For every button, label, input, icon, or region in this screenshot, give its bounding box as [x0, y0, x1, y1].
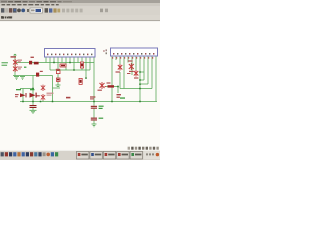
- canvas top-left tab text: [1, 17, 11, 19]
- transistor Q2 left lower: [13, 66, 18, 73]
- wire cap chain x94 below bus: [93, 102, 95, 106]
- wire right ladder rungs: [140, 79, 144, 81]
- label U2 left pin text: [103, 49, 107, 54]
- wire y88 stub right: [53, 87, 61, 89]
- resistor R7 vertical x80.5 lower: [79, 78, 82, 84]
- label Q1: [18, 60, 22, 63]
- wire left rail L2 y75.5: [13, 75, 53, 77]
- transistor Q8 right cluster b: [129, 63, 134, 70]
- label red above bus x90: [90, 96, 95, 99]
- diode D1 on bus A: [29, 61, 32, 65]
- power arrow above Q1: [14, 54, 17, 58]
- transistor Q7 right cluster a: [118, 64, 123, 71]
- resistor R5 chain lower: [56, 78, 60, 81]
- resistor R6 vertical x82: [80, 62, 83, 68]
- capacitor C2 on x94: [91, 106, 97, 109]
- capacitor C3 polarized on x94: [91, 118, 97, 121]
- label D4: [107, 82, 111, 83]
- label mid red x66: [66, 97, 70, 99]
- ground left pair 1: [14, 76, 19, 78]
- wire left transistor stem: [14, 58, 16, 76]
- toolbar icons: [1, 8, 4, 12]
- wire cap branch below bus x33: [32, 102, 34, 106]
- wire x112 vertical: [111, 56, 113, 102]
- label green small near L2: [24, 67, 26, 68]
- label C2 green: [99, 106, 104, 109]
- transistor Q6 mid cluster: [100, 82, 107, 89]
- toolbar2 left control: [1, 16, 4, 19]
- IC U2 pin numbers: [112, 57, 153, 58]
- resistor R3 on busB x60-66: [60, 64, 66, 67]
- ground mid under resistor chain: [56, 84, 61, 86]
- title bar: [0, 0, 160, 3]
- taskbar: [0, 150, 160, 160]
- label Q9: [134, 77, 138, 78]
- transistor Q4 mid-left upper: [41, 85, 45, 91]
- menu bar: [0, 3, 160, 6]
- toolbar faint icons: [62, 9, 83, 13]
- tray: [144, 151, 160, 159]
- LED D3 bottom-left: [30, 93, 37, 98]
- wire mid transistor link y86.5: [106, 86, 118, 88]
- label Q5 right: [47, 93, 54, 96]
- cap marks right of mid cluster: [117, 94, 121, 98]
- label D1 value dark: [34, 62, 39, 65]
- status tray icon row above taskbar: [128, 147, 159, 150]
- diode D2 bottom-left: [20, 93, 27, 97]
- diode D4 mid solid: [108, 85, 115, 87]
- taskbar window buttons: [77, 151, 89, 159]
- toolbar combobox: [30, 8, 43, 13]
- label Q5 left: [36, 95, 40, 96]
- toolbar row 2: [0, 15, 160, 21]
- label Q2: [18, 67, 22, 70]
- resistor R4 chain upper: [56, 69, 60, 74]
- ground under x94 cap chain: [92, 123, 97, 125]
- label D2 green top: [16, 89, 21, 90]
- toolbar icon group 2: [45, 8, 48, 12]
- transistor Q9 right cluster c: [134, 70, 139, 77]
- label top-left red: [11, 56, 17, 57]
- canvas: [0, 21, 160, 150]
- quick launch icons: [1, 152, 4, 156]
- wire mid resistor chain: [57, 74, 59, 79]
- label Q6: [98, 90, 102, 91]
- IC U1: [45, 49, 96, 58]
- wire bottom bus y101.5: [20, 101, 157, 103]
- wire y88.5 left segment: [20, 88, 34, 90]
- label green near bus right: [120, 97, 125, 98]
- transistor Q5 mid-left lower: [41, 94, 45, 102]
- wire bus A y62.5: [15, 62, 94, 64]
- label Q7: [116, 71, 120, 72]
- wire bus B y70: [50, 69, 90, 71]
- ground symbols: [14, 77, 97, 127]
- IC U2: [111, 48, 158, 56]
- label right of it: [40, 71, 43, 72]
- transistor Q1 left upper: [13, 59, 18, 66]
- label D3 green top: [30, 89, 34, 90]
- wire x33 drop: [32, 76, 34, 89]
- wire diode drops: [22, 89, 24, 102]
- label C3 green: [99, 118, 104, 119]
- toolbar row 1: [0, 6, 160, 15]
- junction dots: [22, 62, 141, 103]
- label D2 left: [15, 94, 19, 97]
- label above D1: [31, 57, 34, 58]
- ground bottom-left under cap: [30, 109, 37, 111]
- wire IC1 pin drops: [45, 57, 47, 63]
- wire IC2 pin drops: [115, 56, 117, 60]
- label Q8: [127, 60, 134, 74]
- wire L-drop x52.5: [52, 76, 54, 102]
- component on L2 rail: [36, 73, 39, 77]
- label green sensor text: [2, 62, 8, 66]
- app window background: [0, 0, 160, 160]
- ground left pair 2: [20, 76, 25, 78]
- capacitor C1 bottom-left: [30, 105, 37, 108]
